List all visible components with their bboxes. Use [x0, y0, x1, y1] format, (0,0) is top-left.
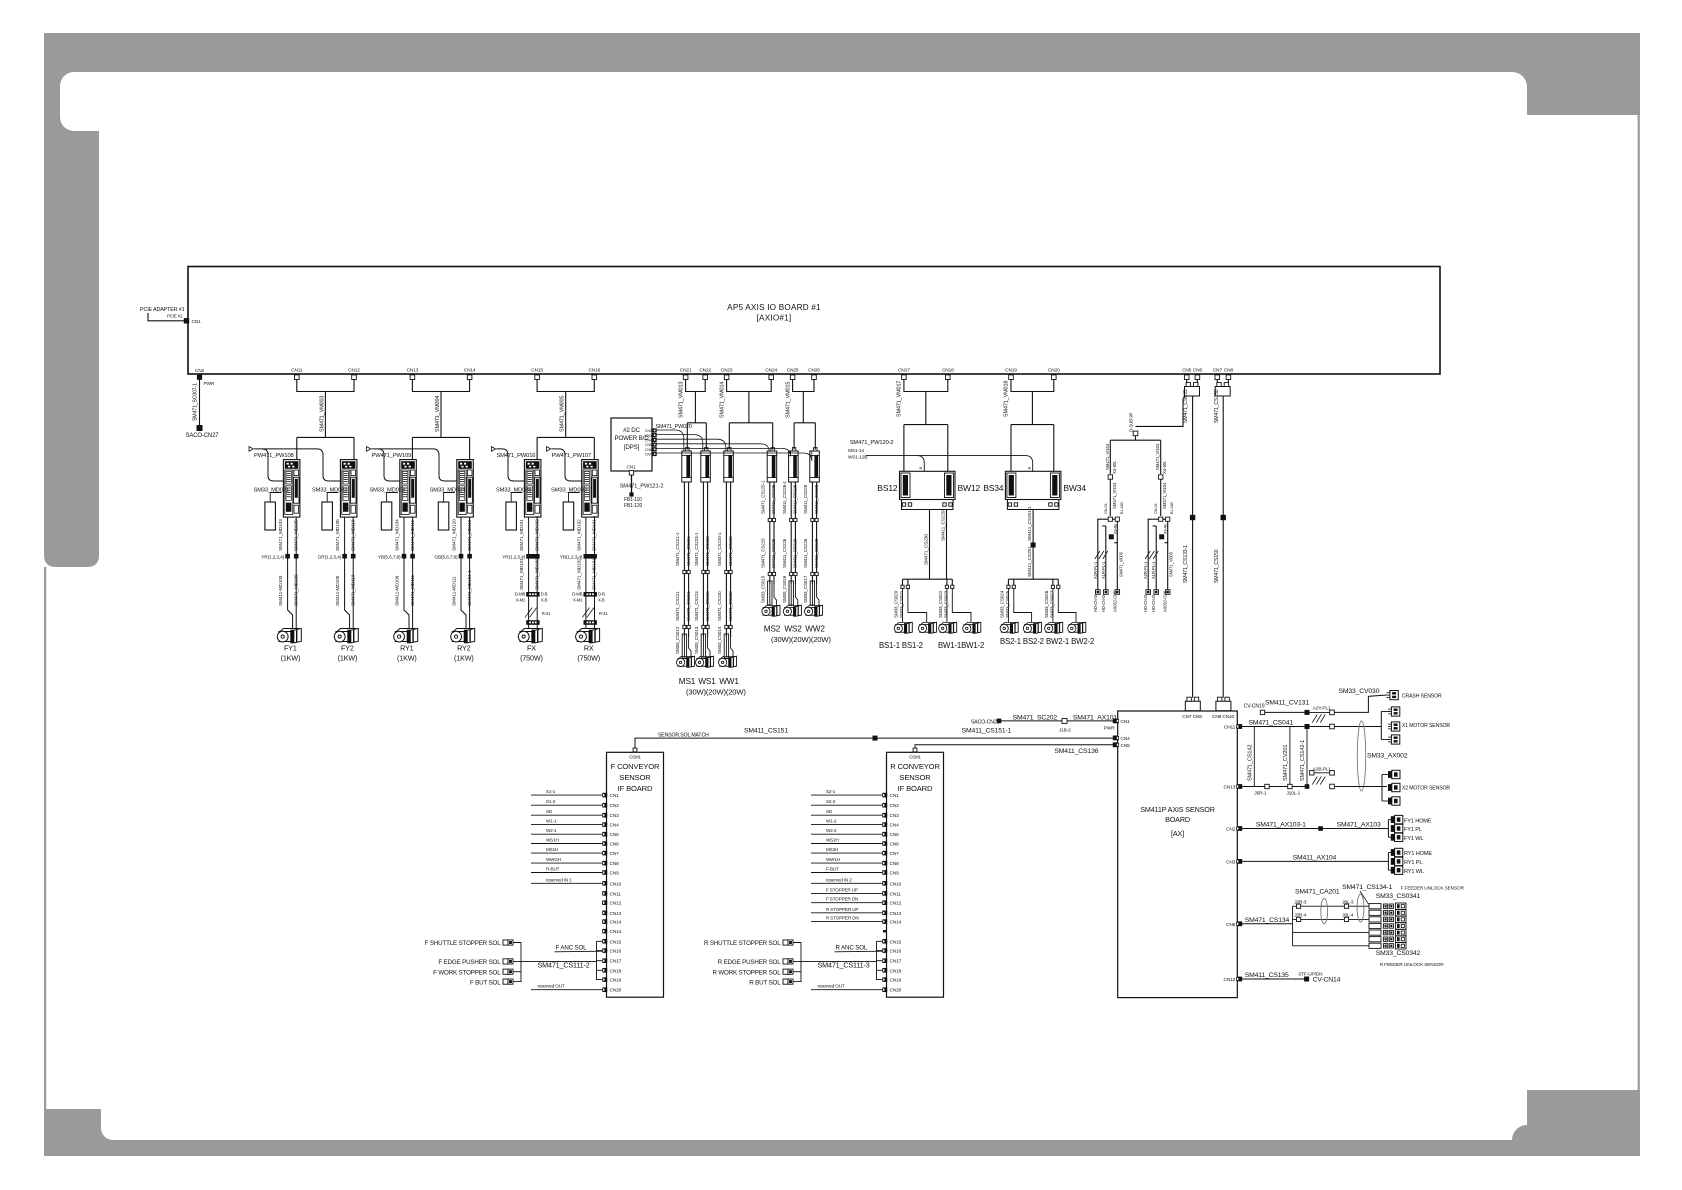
svg-text:SM471_PW020: SM471_PW020	[656, 424, 692, 430]
svg-text:CN24: CN24	[765, 368, 777, 374]
pin CN17 of R board	[883, 958, 888, 963]
feed wire BW34	[1053, 425, 1055, 472]
sensor cartridge WS2	[789, 451, 799, 482]
svg-text:SM471_MD104-1: SM471_MD104-1	[467, 570, 473, 606]
svg-text:CV-CN14: CV-CN14	[1313, 977, 1341, 984]
svg-text:SM471_VI104: SM471_VI104	[1105, 443, 1110, 470]
branch SM471_VI104 at x=1110.3	[1109, 440, 1111, 474]
svg-text:CN12: CN12	[610, 901, 622, 907]
svg-text:SM471_VM013: SM471_VM013	[678, 382, 684, 418]
svg-text:SM471_CS111-2: SM471_CS111-2	[538, 961, 590, 970]
svg-text:SD: SD	[826, 809, 833, 814]
pin CN9 of R board	[883, 870, 888, 875]
svg-text:D-MB: D-MB	[515, 592, 525, 597]
svg-text:SENSOR.SOL MATCH: SENSOR.SOL MATCH	[658, 733, 709, 739]
wire resistor to RX drive	[569, 493, 580, 503]
svg-text:CN1: CN1	[610, 793, 620, 799]
svg-text:BS34: BS34	[983, 483, 1004, 493]
signal W2-2	[811, 833, 882, 835]
svg-text:SM471_CS220: SM471_CS220	[717, 591, 722, 621]
svg-text:R-BUT: R-BUT	[546, 867, 560, 872]
svg-text:PCIE ADAPTER #1: PCIE ADAPTER #1	[140, 307, 185, 313]
svg-text:CN2: CN2	[890, 803, 900, 809]
svg-text:CN15: CN15	[890, 939, 902, 945]
svg-text:IF BOARD: IF BOARD	[618, 784, 653, 793]
svg-text:SM471_MD101-1: SM471_MD101-1	[592, 515, 598, 551]
svg-text:SM471_MD109: SM471_MD109	[293, 519, 299, 551]
feeder wire row2	[1293, 918, 1371, 920]
svg-text:BS12: BS12	[877, 483, 898, 493]
junction connector D-MB/X-M1 of FX	[526, 592, 539, 597]
svg-text:[DPS]: [DPS]	[624, 444, 640, 451]
label reserved OUT	[531, 989, 602, 991]
pin CN14 of F board	[603, 929, 608, 934]
svg-text:WS1: WS1	[698, 677, 716, 686]
board F CONVEYOR SENSOR IF BOARD	[607, 752, 664, 997]
svg-text:SM411_CV131: SM411_CV131	[1265, 700, 1309, 707]
pin CN4 of R board	[883, 822, 888, 827]
svg-text:SM411_CS225: SM411_CS225	[771, 484, 776, 514]
svg-text:SM471_CV201: SM471_CV201	[1283, 745, 1289, 781]
signal F STOPPER DN	[811, 902, 882, 904]
DPS power fan-out wires to sensor cartridges	[657, 430, 684, 451]
svg-text:COM1: COM1	[909, 755, 921, 760]
wire bracket BS34BW34	[1011, 380, 1054, 392]
svg-text:CN17: CN17	[898, 368, 910, 374]
svg-text:SM471_VI104: SM471_VI104	[1155, 443, 1160, 470]
svg-text:CN6: CN6	[610, 842, 620, 848]
wire SM411_CS136 from R board to AX CN5	[915, 745, 1115, 748]
FY1 HOME/PL/WL connectors	[1387, 820, 1389, 838]
svg-text:YR(1,2,3,4): YR(1,2,3,4)	[261, 555, 284, 561]
svg-text:CN9: CN9	[610, 871, 620, 877]
R board top stub	[913, 748, 917, 752]
svg-text:SM471_CS133-1: SM471_CS133-1	[1183, 545, 1189, 583]
svg-text:F EDGE PUSHER SOL: F EDGE PUSHER SOL	[438, 959, 501, 966]
svg-text:W1-2: W1-2	[826, 819, 837, 824]
svg-text:CN5: CN5	[1182, 368, 1192, 374]
brake resistor box of RY2	[438, 502, 449, 530]
junction bar 2 of FX	[526, 620, 539, 625]
svg-text:W2-1: W2-1	[546, 828, 557, 833]
feeder wire row1	[1293, 905, 1371, 907]
AX pin CN3	[1237, 859, 1242, 864]
pin CN2 of R board	[883, 803, 888, 808]
wire bracket SM471_VM004	[412, 380, 469, 392]
svg-text:SM411_CS228: SM411_CS228	[814, 538, 819, 568]
sensor wires of WS1	[702, 482, 704, 637]
svg-text:HD-CN-D: HD-CN-D	[1143, 595, 1148, 612]
svg-text:MS1H: MS1H	[546, 847, 558, 852]
pin CN8 of R board	[883, 861, 888, 866]
svg-text:PWR: PWR	[204, 381, 215, 387]
svg-text:SM471_CS111-3: SM471_CS111-3	[818, 961, 870, 970]
pin CN12 of F board	[603, 900, 608, 905]
svg-text:SM33_CS023: SM33_CS023	[944, 590, 949, 618]
svg-text:BOARD: BOARD	[1165, 815, 1190, 824]
svg-text:SM33_CS0341: SM33_CS0341	[1376, 893, 1421, 900]
svg-text:CN20: CN20	[1048, 368, 1060, 374]
svg-text:AP5 AXIS IO BOARD #1: AP5 AXIS IO BOARD #1	[727, 303, 821, 312]
motor RY2	[451, 628, 475, 642]
motor power wires of FY1	[288, 517, 293, 628]
svg-text:AX062-CN6: AX062-CN6	[1163, 590, 1168, 612]
svg-text:CN19: CN19	[1005, 368, 1017, 374]
motor power wires of FX	[528, 517, 530, 628]
svg-text:CN23: CN23	[721, 368, 733, 374]
svg-text:HD-CN-D: HD-CN-D	[1151, 595, 1156, 612]
svg-text:X-M1: X-M1	[573, 598, 583, 603]
svg-text:D-MB: D-MB	[572, 592, 582, 597]
svg-text:SM471_VM004: SM471_VM004	[435, 396, 441, 432]
svg-text:SM33_AX002: SM33_AX002	[1367, 753, 1408, 760]
svg-text:SM411_CS151: SM411_CS151	[744, 728, 788, 735]
svg-text:#2 DC: #2 DC	[623, 427, 640, 434]
motor power wires of RY2	[461, 517, 466, 628]
svg-text:BW2-1 BW2-2: BW2-1 BW2-2	[1046, 637, 1094, 646]
svg-text:RY2: RY2	[457, 644, 471, 653]
svg-text:CN14: CN14	[610, 929, 622, 935]
svg-text:A1R-PL-1: A1R-PL-1	[1101, 561, 1106, 579]
motor FX	[518, 628, 542, 642]
svg-text:F-BUT: F-BUT	[826, 867, 839, 872]
svg-text:CN13: CN13	[1224, 785, 1236, 791]
wire bracket SM471_VM003	[297, 380, 354, 392]
svg-text:SM33_CV030: SM33_CV030	[1339, 688, 1380, 695]
svg-text:CN18: CN18	[610, 968, 622, 974]
wire PW471_PW107 feed to drive RX	[552, 449, 582, 481]
svg-text:SM471_MD103: SM471_MD103	[278, 519, 284, 551]
svg-text:CN12: CN12	[1224, 977, 1236, 983]
svg-text:X-B: X-B	[541, 598, 548, 603]
feeder unlock connector stack	[1369, 903, 1406, 909]
wire to crash sensor	[1310, 711, 1330, 713]
signal WS2H	[811, 843, 882, 845]
svg-text:J1B-2: J1B-2	[1059, 728, 1071, 734]
signal SD	[811, 814, 882, 816]
svg-text:SM471_PW121-2: SM471_PW121-2	[620, 484, 664, 490]
svg-text:CN16: CN16	[610, 949, 622, 955]
svg-text:A2R-PL-1: A2R-PL-1	[1093, 561, 1098, 579]
svg-text:SM411_CS226-1: SM411_CS226-1	[782, 480, 787, 514]
feed wire BS34	[1010, 425, 1012, 472]
pin CN7 of F board	[603, 851, 608, 856]
svg-text:SM33_CS025: SM33_CS025	[1005, 590, 1010, 618]
AX pin CN11	[1237, 724, 1242, 729]
svg-text:IF BOARD: IF BOARD	[898, 784, 933, 793]
svg-text:R STOPPER UP: R STOPPER UP	[826, 907, 858, 912]
svg-text:WWGH: WWGH	[546, 857, 561, 862]
RY1 HOME/PL/WL connectors	[1387, 853, 1389, 871]
sensor cartridge WW1	[724, 451, 734, 482]
board AXIO#1	[188, 267, 1440, 375]
junction bar YB(1,2,3,4)	[584, 554, 597, 559]
svg-text:SM33_CS015: SM33_CS015	[761, 575, 766, 603]
svg-text:SM471_AX103-1: SM471_AX103-1	[1256, 821, 1306, 828]
svg-text:SM411_CS226: SM411_CS226	[782, 538, 787, 568]
svg-text:CN16: CN16	[588, 368, 600, 374]
svg-text:CN14: CN14	[464, 368, 476, 374]
svg-text:(30W)(20W)(20W): (30W)(20W)(20W)	[686, 688, 746, 697]
junction YB(5,6,7,8) left	[402, 554, 407, 559]
pin CN19 of R board	[883, 977, 888, 982]
svg-text:WS2: WS2	[784, 625, 802, 634]
svg-text:R SHUTTLE STOPPER SOL: R SHUTTLE STOPPER SOL	[704, 940, 781, 947]
svg-text:reserved IN 2: reserved IN 2	[826, 877, 852, 882]
svg-text:A3-4B: A3-4B	[1164, 524, 1168, 534]
svg-text:CN13: CN13	[610, 911, 622, 917]
motor FY1	[277, 628, 301, 642]
signal R STOPPER DN	[811, 921, 882, 923]
svg-text:SM471_CS221: SM471_CS221	[675, 591, 680, 621]
svg-text:SM471_CS134-1: SM471_CS134-1	[1342, 884, 1393, 891]
junction YB(5,6,7,8) right	[410, 554, 415, 559]
svg-text:SENSOR: SENSOR	[619, 773, 651, 782]
connector CN1 on board left edge	[184, 318, 189, 323]
svg-text:SM471_CS225: SM471_CS225	[761, 538, 766, 568]
AX pin CN6	[1237, 921, 1242, 926]
svg-text:SM471_PW120-2: SM471_PW120-2	[850, 440, 894, 446]
svg-text:SM33_CS027: SM33_CS027	[1050, 590, 1055, 618]
sensor unit BS34/BW34	[1005, 471, 1061, 499]
pin CN5 of R board	[883, 832, 888, 837]
svg-text:SM471_CS230: SM471_CS230	[924, 534, 930, 565]
svg-text:S2-2: S2-2	[826, 799, 836, 804]
sensor motor WW2	[805, 605, 823, 616]
servo driver SM33_MD025	[524, 460, 541, 517]
svg-text:CN3: CN3	[610, 813, 620, 819]
pin CN3 of F board	[603, 813, 608, 818]
wire bracket SM471_VM015	[793, 380, 814, 392]
svg-text:WW1H: WW1H	[826, 857, 840, 862]
svg-text:MS2H: MS2H	[826, 847, 838, 852]
pin CN2 of F board	[603, 803, 608, 808]
svg-text:GB(5,6,7,8): GB(5,6,7,8)	[434, 555, 458, 561]
svg-text:AX062-CN5: AX062-CN5	[1112, 590, 1117, 612]
svg-text:CN20: CN20	[890, 988, 902, 994]
svg-text:CN14: CN14	[610, 920, 622, 926]
motor power wires of FY2	[345, 517, 350, 628]
crash sensor connector	[1387, 691, 1399, 700]
svg-text:SM33_CS013: SM33_CS013	[694, 626, 699, 654]
svg-text:W1-1: W1-1	[546, 819, 557, 824]
solenoid bus wires R	[794, 943, 802, 982]
motors BS2-1 BS2-2 BW2-1 BW2-2	[1000, 622, 1018, 633]
servo driver SM33_MD022	[340, 460, 357, 517]
wire PW471_PW108 feed to drives FY1,FY2	[254, 449, 283, 481]
junction bar YR(1,2,3,4)	[526, 554, 539, 559]
svg-text:CN3: CN3	[645, 434, 652, 438]
svg-text:SM471_MD112: SM471_MD112	[467, 519, 473, 551]
svg-text:CN2: CN2	[610, 803, 620, 809]
junction YR(1,2,3,4) right	[294, 554, 299, 559]
wire bracket SM471_VM005	[537, 380, 594, 392]
svg-text:CV-CN19: CV-CN19	[1244, 704, 1265, 710]
svg-text:(1KW): (1KW)	[454, 654, 474, 663]
svg-text:HD-CN-D: HD-CN-D	[1101, 595, 1106, 612]
svg-text:D-B: D-B	[598, 592, 605, 597]
feed wire BS12	[903, 425, 905, 472]
top stub of WS2	[792, 448, 795, 451]
servo driver SM33_MD023	[400, 460, 417, 517]
svg-text:SM471_MD110: SM471_MD110	[350, 574, 356, 606]
svg-text:SM471_MD110: SM471_MD110	[350, 519, 356, 551]
motor power wires of RX	[585, 517, 587, 628]
svg-text:SM411-MD105: SM411-MD105	[335, 575, 341, 606]
wire resistor to FY1 drive	[270, 493, 281, 503]
wire PW471_PW109 feed to drives RY1,RY2	[372, 449, 400, 481]
svg-text:CN5: CN5	[645, 443, 652, 447]
wire bracket BS12BW12	[904, 380, 948, 392]
svg-text:CN14: CN14	[890, 920, 902, 926]
svg-text:W2-2: W2-2	[826, 828, 837, 833]
svg-text:[AX]: [AX]	[1171, 829, 1184, 838]
signal S1-1	[531, 794, 602, 796]
svg-text:CN15: CN15	[610, 939, 622, 945]
sensor wires of WW1	[725, 482, 727, 637]
svg-text:SM411_CS226: SM411_CS226	[793, 484, 798, 514]
svg-text:RY1 HOME: RY1 HOME	[1404, 851, 1432, 857]
svg-text:SM411_CS135: SM411_CS135	[1245, 972, 1289, 979]
svg-text:SM471_CS150: SM471_CS150	[1214, 549, 1220, 583]
brake resistor box of FY2	[322, 502, 333, 530]
svg-text:J10L-1: J10L-1	[1286, 791, 1300, 797]
signal reserved IN 2	[811, 882, 882, 884]
pin CN7 of R board	[883, 851, 888, 856]
svg-text:D-SUB-9P: D-SUB-9P	[1128, 412, 1133, 432]
svg-text:SACO-CN23: SACO-CN23	[971, 720, 1000, 726]
svg-text:CN7: CN7	[610, 851, 620, 857]
svg-text:CN5: CN5	[1121, 743, 1131, 749]
svg-text:CN1: CN1	[192, 319, 202, 325]
wire to X2 motor sensor	[1334, 786, 1387, 788]
signal WW1H	[811, 862, 882, 864]
pin CN5 of F board	[603, 832, 608, 837]
svg-text:SM471_MD101: SM471_MD101	[519, 519, 525, 551]
svg-text:PWR: PWR	[1104, 726, 1115, 732]
AX pin CN13	[1237, 784, 1242, 789]
cable tie hatch of RX	[582, 608, 589, 618]
svg-text:(750W): (750W)	[520, 654, 543, 663]
svg-text:X4-30L: X4-30L	[1112, 460, 1117, 474]
svg-text:RX: RX	[584, 644, 594, 653]
svg-text:reserved IN 1: reserved IN 1	[546, 877, 572, 882]
AX pin CN5	[1113, 742, 1118, 747]
pin CN13 of F board	[603, 911, 608, 916]
svg-text:SM471_VM018: SM471_VM018	[1004, 381, 1010, 417]
svg-text:A2Y-PL1: A2Y-PL1	[1313, 706, 1331, 712]
svg-text:CN22: CN22	[699, 368, 711, 374]
svg-text:WS1-12B: WS1-12B	[848, 454, 867, 460]
pin CN12 of R board	[883, 900, 888, 905]
svg-text:SM411_CS226: SM411_CS226	[793, 538, 798, 568]
signal MS1H	[531, 852, 602, 854]
svg-text:F SHUTTLE STOPPER SOL: F SHUTTLE STOPPER SOL	[425, 940, 502, 947]
svg-text:CN4: CN4	[890, 823, 900, 829]
svg-text:CN8: CN8	[610, 861, 620, 867]
sensor cartridge MS2	[767, 451, 777, 482]
board SM411P AXIS SENSOR BOARD [AX]	[1118, 711, 1238, 998]
svg-text:PCIE #1: PCIE #1	[167, 314, 183, 319]
svg-text:CN8: CN8	[1224, 368, 1234, 374]
svg-text:SM411_CS225: SM411_CS225	[771, 538, 776, 568]
sensor cartridge WS1	[701, 451, 711, 482]
svg-text:MS1-14: MS1-14	[848, 448, 864, 454]
svg-text:CN7: CN7	[1213, 368, 1223, 374]
svg-text:SM471_CA201: SM471_CA201	[1295, 889, 1340, 896]
svg-text:SM411_CS228: SM411_CS228	[814, 484, 819, 514]
D-SUB-9P branch from CN5/6 connector	[1136, 396, 1186, 426]
pin CN1 of F board	[603, 793, 608, 798]
pin CN17 of F board	[603, 958, 608, 963]
svg-text:SM471_CS223-1: SM471_CS223-1	[694, 532, 699, 566]
svg-text:[AXIO#1]: [AXIO#1]	[757, 314, 792, 323]
svg-text:S2-1: S2-1	[826, 789, 836, 794]
svg-text:X-M1: X-M1	[516, 598, 526, 603]
svg-text:SM471_CS225-1: SM471_CS225-1	[761, 480, 766, 514]
pin CN16 of R board	[883, 948, 888, 953]
svg-text:CN16: CN16	[890, 949, 902, 955]
svg-text:F ANC SOL: F ANC SOL	[556, 945, 588, 952]
sensor wires of MS2	[769, 482, 771, 584]
AX CN13 wire with J5R-1 and J10L-1	[1242, 786, 1305, 788]
svg-text:SM471_MD111: SM471_MD111	[410, 520, 416, 551]
svg-text:MS1: MS1	[679, 677, 696, 686]
svg-text:SM471_MD104: SM471_MD104	[395, 519, 401, 551]
wire SM471_PW016 feed to drive FX	[496, 449, 524, 481]
pin CN8 of F board	[603, 861, 608, 866]
svg-text:F STOPPER UP: F STOPPER UP	[826, 887, 858, 892]
sensor motor WS1	[696, 656, 714, 667]
svg-text:CN11: CN11	[291, 368, 303, 374]
cable sleeve of WW1	[724, 634, 728, 658]
svg-text:R BUT SOL: R BUT SOL	[749, 980, 781, 987]
svg-text:SM411_CS228: SM411_CS228	[803, 484, 808, 514]
svg-text:SM471_CS133: SM471_CS133	[1183, 389, 1189, 423]
svg-text:FY2: FY2	[341, 644, 354, 653]
svg-text:CN17: CN17	[890, 959, 902, 965]
svg-text:SM471_AX103: SM471_AX103	[1337, 821, 1381, 828]
svg-text:SM471_VM015: SM471_VM015	[785, 382, 791, 418]
svg-text:WW1: WW1	[719, 677, 739, 686]
svg-text:(30W)(20W)(20W): (30W)(20W)(20W)	[771, 635, 831, 644]
cable SM471_CS150 from CN7/8 to AX CN9/CN10	[1222, 396, 1224, 698]
svg-text:X-B: X-B	[598, 598, 605, 603]
svg-text:SM471_VI005: SM471_VI005	[1169, 551, 1174, 577]
pin CN14 of R board	[883, 930, 887, 932]
svg-text:SM33_CS026: SM33_CS026	[1044, 590, 1049, 618]
sensor cable SM471_CS230	[929, 510, 931, 580]
svg-text:CN13: CN13	[890, 911, 902, 917]
svg-text:SM471_MD111: SM471_MD111	[410, 575, 416, 606]
pin CN13 of R board	[883, 911, 888, 916]
X1 motor sensor connectors	[1380, 712, 1382, 740]
signal reserved IN 1	[531, 882, 602, 884]
signal W2-1	[531, 833, 602, 835]
svg-text:SM471_VM003: SM471_VM003	[319, 396, 325, 432]
svg-text:F CONVEYOR: F CONVEYOR	[611, 762, 660, 771]
sensor cable SM411_CS229	[946, 510, 948, 580]
sensor unit BS12/BW12	[900, 471, 956, 499]
svg-text:S1-2: S1-2	[546, 799, 556, 804]
pin CN6 of R board	[883, 841, 888, 846]
pin CN19 of F board	[603, 977, 608, 982]
svg-text:CN21: CN21	[680, 368, 692, 374]
svg-text:SM471_MD109: SM471_MD109	[293, 574, 299, 606]
svg-text:SM411_CS229: SM411_CS229	[941, 510, 947, 541]
pin CN11 of F board	[603, 891, 608, 896]
power board DPS	[611, 418, 652, 471]
